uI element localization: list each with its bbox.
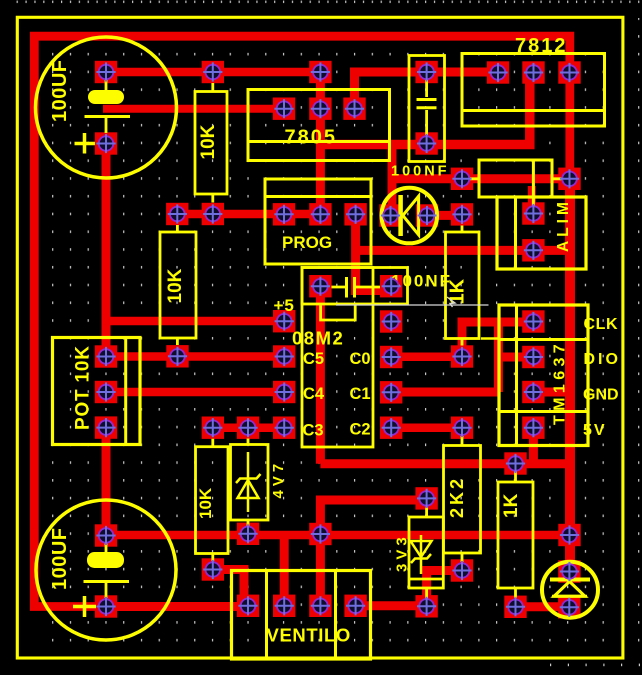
resistor R1 pad 1 hole <box>203 62 222 81</box>
IC U3 pad +5 <box>273 310 295 332</box>
diode D1 leads <box>468 177 564 180</box>
wire TM 5V down <box>529 428 538 464</box>
resistor R5 pad 2 hole <box>452 561 471 580</box>
node pad fan rail <box>309 523 331 545</box>
LED D5 pad cathode <box>558 596 580 618</box>
LED D5 cathode bar <box>550 578 590 582</box>
wire row to LED2 feed <box>320 459 570 468</box>
LED D5 pad cathode hole <box>560 598 579 617</box>
svg-text:C0: C0 <box>350 350 371 368</box>
resistor R1 10K outline <box>195 92 227 195</box>
svg-text:7805: 7805 <box>285 127 338 149</box>
wire diode row ALIM <box>462 174 570 183</box>
svg-text:C1: C1 <box>350 385 371 403</box>
capacitor C4 plates <box>347 277 355 298</box>
resistor R1 bottom lead <box>211 194 214 203</box>
connector VENTILO outline <box>232 571 371 660</box>
potentiometer pad 1 <box>95 345 117 367</box>
wire C1 to 7805 pin1 <box>103 105 284 113</box>
svg-text:100UF: 100UF <box>49 527 71 590</box>
resistor R3 pad 1 hole <box>168 204 187 223</box>
regulator U1 pad IN hole <box>274 99 293 118</box>
resistor R1 pad 1 <box>202 61 224 83</box>
diode D1 pad anode hole <box>452 169 471 188</box>
connector ALIM pad 2 <box>522 239 544 261</box>
resistor R3 pad 2 hole <box>168 347 187 366</box>
svg-text:3V3: 3V3 <box>394 533 411 572</box>
wire C2 to VENTILO <box>106 602 248 611</box>
node pad +V rail <box>309 61 331 83</box>
zener D4 pad anode hole <box>417 597 436 616</box>
capacitor C1 pad minus hole <box>96 134 115 153</box>
wire LED1 row to diode row <box>392 174 462 183</box>
connector VENTILO pad 2 hole <box>275 596 294 615</box>
capacitor C4 leads <box>332 286 381 289</box>
wire 2K2 to 3V3 bottom <box>427 571 462 607</box>
wire 10K3 to VENTILO <box>213 570 248 607</box>
zener D4 3V3 outline <box>409 517 443 588</box>
connector PROG pad 1 <box>273 203 295 225</box>
node pad LED feed hole <box>560 525 579 544</box>
resistor R6 pad 1 <box>504 452 526 474</box>
wire POT wiper to IC C4 row <box>106 388 284 397</box>
connector PROG outline <box>265 179 371 264</box>
zener D4 triangle <box>411 541 432 557</box>
wire 7805-in corner <box>355 72 499 109</box>
LED D5 pad anode hole <box>560 562 579 581</box>
IC U3 pad C0 <box>380 346 402 368</box>
wire 7805 center vertical <box>316 72 325 214</box>
grid dots right margin <box>638 18 641 646</box>
resistor R3 pad 1 <box>166 203 188 225</box>
LED D2 pad cathode <box>379 204 401 226</box>
connector ALIM pad 2 hole <box>524 241 543 260</box>
IC U3 pad 1 hole <box>311 277 330 296</box>
zener D4 bar <box>411 554 431 563</box>
IC U3 pad 8 hole <box>382 277 401 296</box>
capacitor C2 top lead <box>105 542 108 553</box>
wire snake to IC C1 pad <box>391 388 498 397</box>
potentiometer pad 3 hole <box>96 418 115 437</box>
IC U3 pad 7 hole <box>382 312 401 331</box>
connector TM1637 divider A <box>499 338 588 341</box>
potentiometer pad 3 <box>95 416 117 438</box>
regulator U2 pad IN hole <box>488 63 507 82</box>
svg-text:PROG: PROG <box>282 233 332 252</box>
zener D3 bar <box>236 474 261 483</box>
regulator U2 pad OUT hole <box>560 63 579 82</box>
potentiometer POT 10K outline <box>53 338 141 445</box>
IC U3 pad C1 hole <box>382 383 401 402</box>
resistor R3 10K outline <box>160 232 196 338</box>
zener D4 leads <box>425 508 428 600</box>
capacitor C2 pad plus <box>95 524 117 546</box>
capacitor C3 pad 1 hole <box>417 62 436 81</box>
zener D4 pad cathode hole <box>417 489 436 508</box>
connector PROG pad 2 <box>309 203 331 225</box>
connector TM1637 pad 5V hole <box>524 418 543 437</box>
connector ALIM outline <box>497 197 586 269</box>
connector TM1637 pad CLK hole <box>524 312 543 331</box>
capacitor C2 pad plus hole <box>96 526 115 545</box>
svg-text:10K: 10K <box>198 124 219 159</box>
resistor R6 pad 2 <box>504 596 526 618</box>
capacitor C1 bottom lead <box>105 117 108 134</box>
grid dots bottom-right margin <box>550 664 551 667</box>
resistor R3 pad 2 <box>166 345 188 367</box>
wire PROG row <box>177 210 320 219</box>
wire 10K3 to IC C3 row <box>213 423 284 432</box>
IC U3 pad C1 <box>380 381 402 403</box>
regulator U2 7812 outline <box>462 54 605 127</box>
capacitor C1 pad minus <box>95 132 117 154</box>
connector VENTILO pad 1 hole <box>238 596 257 615</box>
svg-text:TM1637: TM1637 <box>552 340 569 425</box>
regulator U2 pad IN <box>487 61 509 83</box>
capacitor C3 pad 2 hole <box>417 134 436 153</box>
connector PROG pad 3 hole <box>346 205 365 224</box>
IC U3 pad 8 <box>380 275 402 297</box>
wire POT3 to C2 cap <box>102 428 111 536</box>
svg-text:POT 10K: POT 10K <box>73 345 94 430</box>
wire snake mid vertical <box>494 322 503 392</box>
IC U3 pad 1 <box>309 275 331 297</box>
connector PROG pad 1 hole <box>274 205 293 224</box>
grid dots board <box>45 48 611 646</box>
regulator U1 pad OUT <box>343 98 365 120</box>
regulator U2 pad GND <box>522 61 544 83</box>
wire ALIM center stub <box>528 186 536 214</box>
capacitor C1 minus plate <box>85 115 131 118</box>
connector TM1637 stub <box>481 337 499 340</box>
svg-text:100UF: 100UF <box>49 59 71 122</box>
capacitor C2 pad minus hole <box>96 597 115 616</box>
zener D3 pad anode <box>237 523 259 545</box>
connector TM1637 pad CLK <box>522 310 544 332</box>
connector VENTILO pad 1 <box>237 595 259 617</box>
svg-text:100NF: 100NF <box>391 164 450 180</box>
connector PROG divider <box>265 195 371 198</box>
svg-text:C4: C4 <box>303 385 325 403</box>
IC U3 pad C4 hole <box>275 382 294 401</box>
resistor R1 top lead <box>211 83 214 92</box>
wire 1K2 to LED2 <box>516 602 570 611</box>
svg-text:C3: C3 <box>303 422 324 440</box>
zener D3 triangle <box>238 480 259 498</box>
svg-text:1K: 1K <box>447 278 469 304</box>
capacitor C1 plus mark <box>75 133 96 154</box>
svg-text:2K2: 2K2 <box>447 476 467 518</box>
svg-text:CLK: CLK <box>584 316 619 333</box>
IC U3 pad C3 hole <box>275 418 294 437</box>
mouse cursor <box>447 297 455 307</box>
LED D5 outline <box>542 562 598 618</box>
resistor R5 pad 1 hole <box>452 418 471 437</box>
diode D1 cathode bar <box>532 160 535 209</box>
resistor R6 1K outline <box>498 482 533 588</box>
wire POT to IC C5 row <box>106 352 284 361</box>
capacitor C3 pad 1 <box>415 61 437 83</box>
wire IC C0 to 1K <box>391 353 462 362</box>
svg-text:C2: C2 <box>350 421 371 439</box>
wire IC internal vertical <box>316 286 325 464</box>
svg-text:DIO: DIO <box>584 351 621 368</box>
resistor R2 pad 1 hole <box>452 205 471 224</box>
regulator U1 pad GND <box>309 98 331 120</box>
resistor R4 pad 2 hole <box>203 560 222 579</box>
wire VENTILO pin2 up <box>280 535 289 606</box>
wire C1 minus down to POT <box>102 144 111 357</box>
svg-text:08M2: 08M2 <box>292 328 344 349</box>
resistor R2 pad 2 hole <box>452 347 471 366</box>
LED D2 outline <box>382 188 438 244</box>
wire cap to LED1 vertical <box>388 145 397 216</box>
resistor R5 2K2 outline <box>444 446 481 554</box>
LED D2 cathode bar <box>398 195 403 236</box>
regulator U2 pad GND hole <box>524 63 543 82</box>
diode D1 pad cathode <box>558 168 580 190</box>
svg-text:GND: GND <box>583 387 619 404</box>
capacitor C1 pad plus <box>95 61 117 83</box>
capacitor C1 plus-plate blob <box>88 90 124 104</box>
capacitor C2 plus-plate blob <box>87 552 124 568</box>
wire ring GND (left-top border trace) <box>34 36 570 606</box>
capacitor C3 leads <box>425 79 428 135</box>
diode D1 outline <box>479 160 552 197</box>
capacitor C2 pad minus <box>95 595 117 617</box>
zener D4 pad anode <box>415 595 437 617</box>
resistor R4 pad 2 <box>202 558 224 580</box>
wire snake to DIO pad <box>498 353 533 362</box>
zener D3 pad anode hole <box>238 524 257 543</box>
svg-text:7812: 7812 <box>515 35 568 57</box>
connector VENTILO pad 2 <box>273 595 295 617</box>
zener D3 leads <box>247 439 250 527</box>
LED D5 pad anode <box>558 560 580 582</box>
wire 3V3 top to vertical <box>320 500 426 606</box>
zener D3 symbol line <box>247 452 250 512</box>
svg-text:4V7: 4V7 <box>270 460 287 499</box>
diode D1 pad anode <box>451 168 473 190</box>
resistor R5 leads <box>461 436 464 562</box>
capacitor C4 100NF outline <box>302 268 408 305</box>
node pad LED feed <box>558 524 580 546</box>
IC U3 pad C5 hole <box>275 347 294 366</box>
zener D4 symbol line <box>420 535 423 574</box>
connector TM1637 outline <box>499 305 588 446</box>
connector PROG pad 2 hole <box>311 205 330 224</box>
wire bottom rail <box>106 531 570 540</box>
svg-text:100NF: 100NF <box>391 272 452 291</box>
resistor R2 pad 2 <box>451 345 473 367</box>
resistor R4 pad 1 <box>202 417 224 439</box>
regulator U1 pad OUT hole <box>345 99 364 118</box>
IC U3 pad +5 hole <box>275 312 294 331</box>
capacitor C1 100UF outline <box>36 37 177 178</box>
zener D4 pad cathode <box>415 487 437 509</box>
connector TM1637 pad 5V <box>522 417 544 439</box>
connector TM1637 inner vertical <box>515 305 518 446</box>
LED D5 triangle <box>554 582 585 597</box>
connector ALIM pad center <box>522 202 544 224</box>
regulator U1 7805 outline <box>248 90 390 161</box>
potentiometer pad wiper <box>95 381 117 403</box>
resistor R5 pad 1 <box>451 417 473 439</box>
IC U3 pin1 notch <box>321 305 356 320</box>
IC U3 pad C2 <box>380 417 402 439</box>
IC U3 pad C2 hole <box>382 418 401 437</box>
wire VENTILO to 3V3 <box>356 601 427 610</box>
wire +5 rail <box>106 317 284 326</box>
potentiometer pad wiper hole <box>96 382 115 401</box>
capacitor C3 100NF outline <box>409 56 445 162</box>
svg-text:1K: 1K <box>501 493 522 518</box>
resistor R5 pad 2 <box>451 559 473 581</box>
capacitor C3 plates <box>417 100 437 108</box>
IC U3 pad C5 <box>273 345 295 367</box>
diode D1 pad cathode hole <box>560 169 579 188</box>
connector TM1637 pad DIO <box>522 346 544 368</box>
svg-text:10K: 10K <box>196 487 215 519</box>
LED D2 pad cathode hole <box>381 206 400 225</box>
zener D4 inner line <box>409 578 443 581</box>
connector VENTILO pad 3 hole <box>311 596 330 615</box>
connector VENTILO pad 4 <box>344 595 366 617</box>
connector TM1637 divider B <box>499 410 588 413</box>
resistor R2 pad 1 <box>451 203 473 225</box>
wire IC C2 to 2K2 <box>391 423 462 432</box>
zener D3 4V7 outline <box>231 445 269 521</box>
connector PROG pad 3 <box>344 203 366 225</box>
connector VENTILO divider B <box>334 571 337 660</box>
selection line <box>336 304 489 306</box>
LED D5 base line <box>552 595 587 598</box>
wire snake up from 1K <box>462 322 533 357</box>
regulator U1 pad GND hole <box>311 99 330 118</box>
wire ALIM pin to vertical <box>357 246 571 255</box>
IC U3 pad C0 hole <box>382 347 401 366</box>
resistor R1 pad 2 <box>202 203 224 225</box>
capacitor C2 plus mark <box>73 596 96 617</box>
IC U3 pad C3 <box>273 417 295 439</box>
resistor R2 1K outline <box>446 232 480 339</box>
zener D3 pad cathode hole <box>238 418 257 437</box>
connector TM1637 pad GND hole <box>524 382 543 401</box>
connector ALIM pad center hole <box>524 204 543 223</box>
regulator U1 divider <box>248 140 390 143</box>
connector TM1637 pad DIO hole <box>524 347 543 366</box>
IC U3 pad 7 <box>380 310 402 332</box>
LED D2 pad anode <box>416 204 438 226</box>
capacitor C1 top lead <box>105 78 108 91</box>
svg-text:5V: 5V <box>583 422 607 439</box>
capacitor C2 bottom lead <box>105 582 108 599</box>
wire +V top rail C1 to IC <box>106 68 320 77</box>
svg-text:ALIM: ALIM <box>555 198 572 252</box>
node pad fan rail hole <box>311 524 330 543</box>
capacitor C2 minus plate <box>84 580 130 583</box>
IC U3 08M2 outline <box>302 268 373 448</box>
connector ALIM divider <box>514 197 517 269</box>
LED D2 pad anode hole <box>417 206 436 225</box>
connector VENTILO divider A <box>265 571 268 660</box>
resistor R1 pad 2 hole <box>203 204 222 223</box>
connector VENTILO pad 4 hole <box>346 596 365 615</box>
wire ALIM long vertical to LED2 <box>565 179 575 572</box>
resistor R2 leads <box>461 226 464 346</box>
LED D2 triangle <box>403 196 419 235</box>
resistor R4 pad 1 hole <box>203 418 222 437</box>
potentiometer pad 1 hole <box>96 347 115 366</box>
zener D3 pad cathode <box>237 417 259 439</box>
wire 7805 to 7812 link <box>320 73 529 145</box>
wire GND TM1637 <box>533 388 570 397</box>
regulator U2 pad OUT <box>558 61 580 83</box>
svg-text:VENTILO: VENTILO <box>267 625 351 646</box>
wire PROG pin3 to IC pin <box>356 214 392 290</box>
resistor R3 leads <box>176 225 179 345</box>
regulator U1 pad IN <box>273 98 295 120</box>
capacitor C3 pad 2 <box>415 132 437 154</box>
connector TM1637 pad GND <box>522 381 544 403</box>
svg-text:10K: 10K <box>165 268 186 303</box>
node pad +V rail hole <box>311 62 330 81</box>
regulator U2 divider <box>462 109 605 112</box>
svg-text:C5: C5 <box>303 350 324 368</box>
resistor R6 pad 2 hole <box>506 597 525 616</box>
capacitor C2 100UF outline <box>36 500 176 640</box>
capacitor C1 pad plus hole <box>96 62 115 81</box>
resistor R6 leads <box>514 471 517 598</box>
IC U3 pad C4 <box>273 381 295 403</box>
resistor R6 pad 1 hole <box>506 454 525 473</box>
potentiometer divider <box>124 338 127 445</box>
wire LED1 to 1K top <box>427 211 462 220</box>
grid dots top margin <box>13 1 642 5</box>
resistor R4 leads <box>211 439 214 561</box>
resistor R4 10K outline <box>196 447 229 554</box>
connector VENTILO pad 3 <box>309 595 331 617</box>
